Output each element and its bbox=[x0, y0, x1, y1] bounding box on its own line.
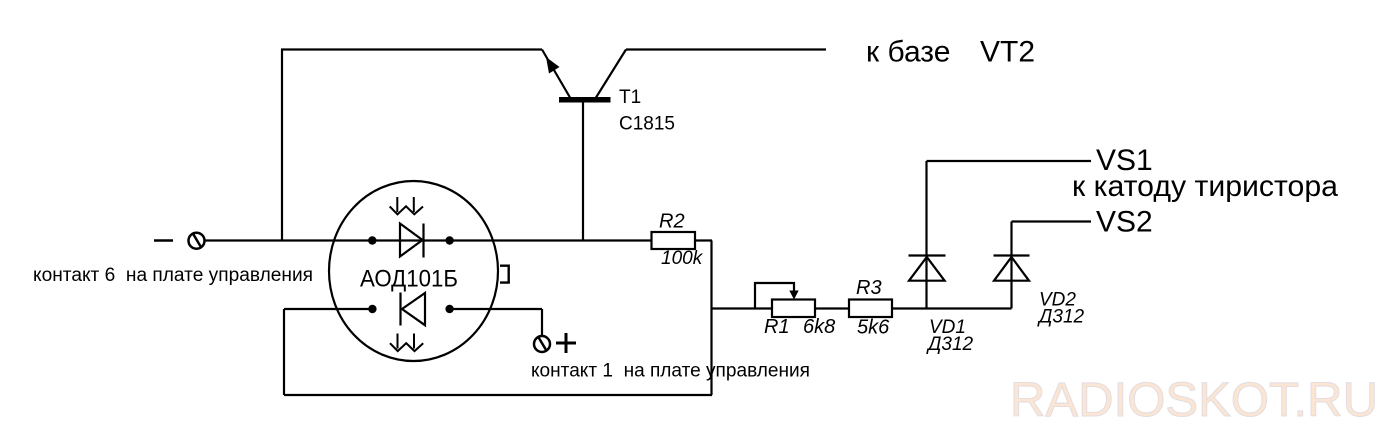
svg-text:VS2: VS2 bbox=[1096, 206, 1153, 239]
svg-text:100k: 100k bbox=[661, 248, 704, 269]
node dot left top bbox=[368, 236, 376, 244]
wiper arrowhead bbox=[789, 291, 798, 300]
emitter line bbox=[542, 50, 570, 98]
svg-text:R1: R1 bbox=[764, 316, 790, 338]
wiper wire bbox=[755, 283, 794, 309]
LED top diode bbox=[400, 224, 424, 258]
wire R1 to R3 bbox=[815, 307, 849, 309]
bracket tab right of circle bbox=[500, 266, 509, 283]
svg-text:к базе: к базе bbox=[866, 36, 950, 69]
plus sign bbox=[556, 333, 576, 353]
wire right vertical bbox=[710, 241, 712, 396]
wire left vertical bbox=[281, 50, 283, 242]
wire VS2 bbox=[1012, 220, 1092, 222]
svg-text:6k8: 6k8 bbox=[803, 316, 835, 338]
diode VD2 bbox=[994, 222, 1030, 309]
collector line bbox=[596, 50, 626, 98]
arrows out of photodiode bbox=[390, 334, 423, 352]
wire main left horizontal bbox=[205, 239, 652, 241]
transistor T1 bbox=[542, 50, 626, 241]
minus dash bbox=[154, 239, 173, 242]
wire R2 to corner bbox=[695, 239, 712, 241]
wire bottom horizontal bbox=[284, 394, 712, 396]
svg-text:R3: R3 bbox=[856, 277, 882, 299]
svg-text:R2: R2 bbox=[659, 211, 685, 233]
svg-text:5k6: 5k6 bbox=[857, 317, 890, 339]
terminal контакт 6 bbox=[154, 233, 205, 249]
wire bottom diode left bbox=[284, 308, 372, 310]
svg-text:к катоду тиристора: к катоду тиристора bbox=[1072, 170, 1338, 203]
potentiometer R1 bbox=[755, 283, 815, 317]
svg-text:Д312: Д312 bbox=[926, 334, 974, 355]
resistor R3 bbox=[849, 300, 892, 318]
terminal circle bbox=[189, 233, 205, 249]
base vertical wire bbox=[582, 102, 584, 241]
node dot right bottom bbox=[445, 305, 453, 313]
svg-text:T1: T1 bbox=[619, 87, 641, 108]
svg-text:АОД101Б: АОД101Б bbox=[360, 265, 458, 292]
optocoupler U1 circle bbox=[329, 181, 498, 361]
photodiode bottom bbox=[401, 293, 426, 326]
wire R3 to VD2 bbox=[892, 307, 1012, 309]
wire top-right horizontal bbox=[626, 48, 826, 50]
svg-text:контакт 1 на плате управления: контакт 1 на плате управления bbox=[531, 361, 810, 382]
svg-text:C1815: C1815 bbox=[619, 114, 675, 135]
arrows into LED bbox=[390, 197, 423, 214]
svg-text:RADIOSKOT.RU: RADIOSKOT.RU bbox=[1010, 374, 1377, 427]
resistor R2 bbox=[652, 232, 696, 249]
svg-text:контакт 6 на плате управления: контакт 6 на плате управления bbox=[33, 265, 313, 286]
svg-text:VT2: VT2 bbox=[980, 36, 1035, 69]
node dot right top bbox=[445, 236, 453, 244]
base bar bbox=[559, 97, 611, 103]
terminal slash bbox=[193, 233, 202, 248]
node dot left bottom bbox=[368, 305, 376, 313]
wire bottom-left vertical bbox=[283, 309, 285, 395]
wire top-left horizontal bbox=[281, 48, 542, 50]
terminal контакт 1 bbox=[534, 336, 550, 352]
wire bottom diode right to terminal bbox=[449, 308, 542, 310]
wire VS1 bbox=[927, 160, 1092, 162]
diode VD1 bbox=[909, 161, 946, 309]
wire R1 feed bbox=[712, 307, 773, 309]
svg-text:Д312: Д312 bbox=[1037, 307, 1085, 328]
emitter arrowhead bbox=[546, 57, 560, 74]
